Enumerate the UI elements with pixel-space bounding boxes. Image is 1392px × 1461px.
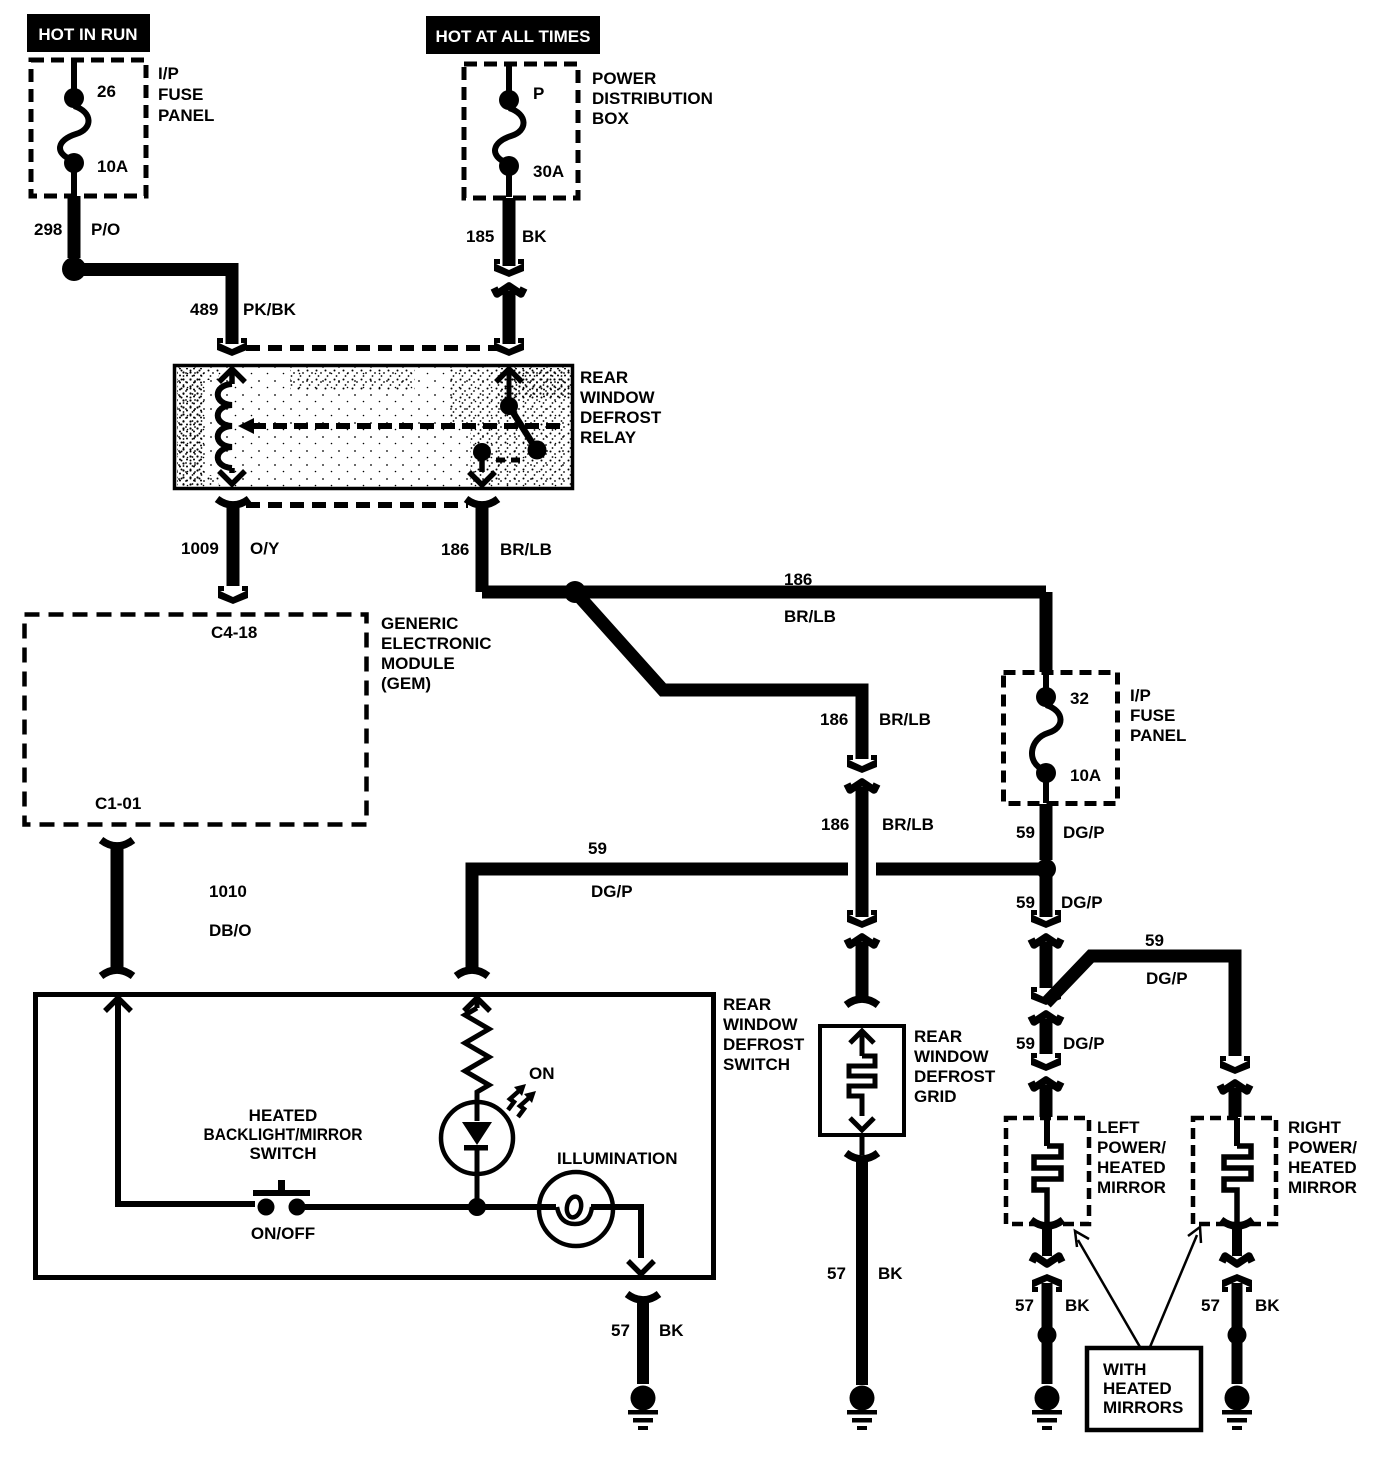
svg-text:DG/P: DG/P — [591, 882, 633, 901]
svg-text:59: 59 — [1145, 931, 1164, 950]
svg-text:HEATED: HEATED — [1103, 1379, 1172, 1398]
svg-text:GENERIC: GENERIC — [381, 614, 458, 633]
svg-text:59: 59 — [588, 839, 607, 858]
svg-text:DG/P: DG/P — [1063, 823, 1105, 842]
svg-text:59: 59 — [1016, 823, 1035, 842]
svg-text:DG/P: DG/P — [1146, 969, 1188, 988]
svg-text:WITH: WITH — [1103, 1360, 1146, 1379]
svg-text:32: 32 — [1070, 689, 1089, 708]
svg-text:BACKLIGHT/MIRROR: BACKLIGHT/MIRROR — [204, 1125, 363, 1144]
svg-text:I/P: I/P — [158, 64, 179, 83]
svg-text:298: 298 — [34, 220, 62, 239]
svg-text:BR/LB: BR/LB — [500, 540, 552, 559]
svg-text:FUSE: FUSE — [158, 85, 203, 104]
svg-text:57: 57 — [827, 1264, 846, 1283]
svg-text:186: 186 — [821, 815, 849, 834]
svg-text:HOT AT ALL TIMES: HOT AT ALL TIMES — [436, 27, 591, 46]
svg-text:(GEM): (GEM) — [381, 674, 431, 693]
svg-text:REAR: REAR — [580, 368, 628, 387]
svg-text:POWER: POWER — [592, 69, 656, 88]
svg-text:DB/O: DB/O — [209, 921, 252, 940]
svg-text:P: P — [533, 84, 544, 103]
svg-text:57: 57 — [611, 1321, 630, 1340]
svg-text:1009: 1009 — [181, 539, 219, 558]
svg-text:185: 185 — [466, 227, 494, 246]
svg-text:26: 26 — [97, 82, 116, 101]
svg-text:P/O: P/O — [91, 220, 120, 239]
svg-text:SWITCH: SWITCH — [723, 1055, 790, 1074]
svg-text:186: 186 — [441, 540, 469, 559]
svg-text:BR/LB: BR/LB — [879, 710, 931, 729]
svg-text:FUSE: FUSE — [1130, 706, 1175, 725]
svg-text:BOX: BOX — [592, 109, 630, 128]
svg-text:10A: 10A — [97, 157, 128, 176]
svg-text:57: 57 — [1201, 1296, 1220, 1315]
svg-text:BK: BK — [878, 1264, 903, 1283]
svg-text:ELECTRONIC: ELECTRONIC — [381, 634, 492, 653]
svg-text:DG/P: DG/P — [1061, 893, 1103, 912]
svg-text:PANEL: PANEL — [1130, 726, 1186, 745]
svg-text:186: 186 — [820, 710, 848, 729]
svg-text:HOT IN RUN: HOT IN RUN — [38, 25, 137, 44]
svg-text:DG/P: DG/P — [1063, 1034, 1105, 1053]
svg-text:SWITCH: SWITCH — [249, 1144, 316, 1163]
svg-text:WINDOW: WINDOW — [580, 388, 656, 407]
svg-text:WINDOW: WINDOW — [723, 1015, 799, 1034]
svg-text:C4-18: C4-18 — [211, 623, 257, 642]
svg-text:BK: BK — [1065, 1296, 1090, 1315]
svg-text:POWER/: POWER/ — [1097, 1138, 1166, 1157]
svg-text:PANEL: PANEL — [158, 106, 214, 125]
svg-text:BK: BK — [659, 1321, 684, 1340]
svg-text:DEFROST: DEFROST — [914, 1067, 996, 1086]
svg-text:ON: ON — [529, 1064, 555, 1083]
svg-text:BK: BK — [1255, 1296, 1280, 1315]
svg-text:DISTRIBUTION: DISTRIBUTION — [592, 89, 713, 108]
svg-text:30A: 30A — [533, 162, 564, 181]
svg-text:REAR: REAR — [914, 1027, 962, 1046]
svg-text:1010: 1010 — [209, 882, 247, 901]
svg-text:C1-01: C1-01 — [95, 794, 141, 813]
svg-text:BR/LB: BR/LB — [882, 815, 934, 834]
svg-text:LEFT: LEFT — [1097, 1118, 1140, 1137]
svg-text:ON/OFF: ON/OFF — [251, 1224, 315, 1243]
svg-text:HEATED: HEATED — [1097, 1158, 1166, 1177]
svg-text:MIRROR: MIRROR — [1288, 1178, 1357, 1197]
svg-text:MIRROR: MIRROR — [1097, 1178, 1166, 1197]
svg-text:POWER/: POWER/ — [1288, 1138, 1357, 1157]
svg-text:186: 186 — [784, 570, 812, 589]
svg-text:RELAY: RELAY — [580, 428, 637, 447]
svg-text:REAR: REAR — [723, 995, 771, 1014]
svg-text:GRID: GRID — [914, 1087, 957, 1106]
svg-text:DEFROST: DEFROST — [723, 1035, 805, 1054]
svg-text:MIRRORS: MIRRORS — [1103, 1398, 1183, 1417]
svg-text:BR/LB: BR/LB — [784, 607, 836, 626]
svg-text:HEATED: HEATED — [249, 1106, 318, 1125]
svg-text:PK/BK: PK/BK — [243, 300, 297, 319]
svg-text:59: 59 — [1016, 893, 1035, 912]
svg-text:10A: 10A — [1070, 766, 1101, 785]
svg-text:RIGHT: RIGHT — [1288, 1118, 1342, 1137]
svg-text:I/P: I/P — [1130, 686, 1151, 705]
svg-text:489: 489 — [190, 300, 218, 319]
svg-text:59: 59 — [1016, 1034, 1035, 1053]
svg-text:WINDOW: WINDOW — [914, 1047, 990, 1066]
svg-text:ILLUMINATION: ILLUMINATION — [557, 1149, 678, 1168]
svg-text:DEFROST: DEFROST — [580, 408, 662, 427]
svg-text:HEATED: HEATED — [1288, 1158, 1357, 1177]
svg-text:BK: BK — [522, 227, 547, 246]
svg-text:O/Y: O/Y — [250, 539, 280, 558]
svg-text:57: 57 — [1015, 1296, 1034, 1315]
svg-text:MODULE: MODULE — [381, 654, 455, 673]
